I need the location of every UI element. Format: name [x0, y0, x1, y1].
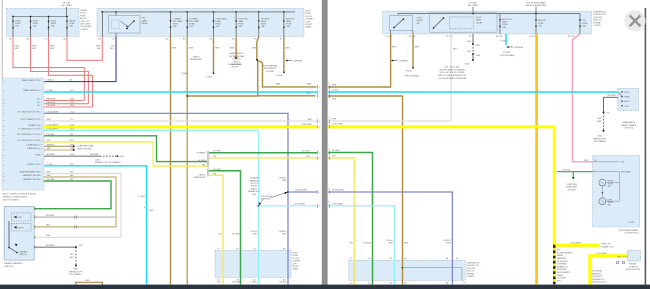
svg-text:(051): (051) — [70, 154, 75, 156]
svg-text:(UNDER: (UNDER — [293, 261, 301, 263]
row GND wire BLK/WHT with splice S203 — [44, 154, 124, 158]
svg-text:A2: A2 — [404, 257, 406, 260]
wire BRN cargo passenger 2 — [186, 37, 188, 285]
arrow to slate junction — [271, 192, 287, 198]
svg-text:KICK PANEL): KICK PANEL) — [70, 273, 82, 276]
wire BRN row2 right page to bottom box — [328, 96, 402, 285]
svg-text:LT BLU/WHT: LT BLU/WHT — [47, 129, 59, 131]
svg-text:S110: S110 — [476, 45, 480, 47]
svg-text:ENGINE: ENGINE — [593, 22, 601, 24]
IPC label — [619, 229, 639, 235]
svg-text:HARNESS: HARNESS — [592, 272, 602, 275]
labels above bottom right box — [349, 240, 451, 245]
svg-text:A1: A1 — [10, 38, 12, 41]
svg-text:(4.3L RIGHT REAR OF ENGINE): (4.3L RIGHT REAR OF ENGINE) — [438, 77, 467, 80]
svg-text:RR TURN SIG LP CTRL (: RR TURN SIG LP CTRL ( — [17, 134, 42, 136]
svg-text:BLU: BLU — [110, 48, 114, 50]
inline connector marks x206 — [207, 151, 209, 177]
svg-text:W/ INSTRUMENT: W/ INSTRUMENT — [557, 252, 573, 254]
svg-text:SIDE OF THE ENGINE BLOCK): SIDE OF THE ENGINE BLOCK) — [438, 75, 466, 77]
dashed highlighted wire down from splice — [553, 245, 556, 284]
svg-text:BREAKOUT): BREAKOUT) — [248, 190, 260, 193]
svg-text:1413: 1413 — [70, 129, 74, 131]
svg-text:BRN: BRN — [332, 85, 337, 87]
svg-text:RELAY: RELAY — [142, 22, 149, 25]
svg-text:A6: A6 — [446, 282, 448, 285]
svg-text:SWITCH: SWITCH — [20, 254, 28, 256]
svg-text:LT BLU: LT BLU — [47, 90, 54, 92]
svg-text:INSTRUMENT PANEL: INSTRUMENT PANEL — [619, 229, 639, 232]
svg-text:DATA BUS (-) (: DATA BUS (-) ( — [27, 147, 42, 150]
svg-text:(ON LEFT: (ON LEFT — [593, 17, 603, 19]
wire BRN to ground G300 — [213, 37, 215, 75]
fuse FRT PRK LAMP — [258, 12, 270, 37]
svg-text:SWITCH): SWITCH) — [625, 128, 634, 130]
svg-text:S203: S203 — [149, 210, 154, 212]
svg-text:W/ FOLDING: W/ FOLDING — [260, 196, 272, 198]
svg-text:B5: B5 — [232, 39, 234, 41]
svg-text:TURN: TURN — [608, 183, 614, 185]
svg-text:B7: B7 — [390, 283, 392, 285]
labels below bottom box — [217, 282, 287, 284]
label RED/WHT 1 — [15, 46, 20, 51]
svg-text:INSTRUMENT: INSTRUMENT — [557, 272, 571, 274]
svg-text:RIGHT: RIGHT — [18, 228, 25, 230]
svg-text:CURRENT: CURRENT — [514, 47, 524, 49]
svg-text:FRONT: FRONT — [306, 24, 313, 26]
svg-text:G302: G302 — [95, 160, 100, 162]
svg-text:41: 41 — [469, 36, 471, 38]
svg-text:PARK: PARK — [625, 96, 631, 99]
svg-text:HAZARD SW SIG (: HAZARD SW SIG ( — [23, 174, 42, 177]
svg-text:DK BLU/WHT: DK BLU/WHT — [332, 190, 345, 192]
label HOT AT ALL TIMES (box A) — [62, 1, 73, 16]
svg-text:PASSENGER: PASSENGER — [190, 58, 203, 61]
svg-text:A2: A2 — [404, 282, 406, 285]
row LR TURN wire YEL — [44, 142, 207, 166]
label DK BLU — [110, 46, 114, 51]
BCM row labels — [17, 79, 42, 181]
svg-text:10: 10 — [594, 160, 596, 162]
svg-text:CURRENT: CURRENT — [293, 61, 303, 63]
svg-text:DK BLU: DK BLU — [280, 282, 288, 284]
fuse BRK SW — [535, 14, 546, 34]
svg-text:LT BLU/WHT: LT BLU/WHT — [47, 124, 59, 126]
svg-text:LAMP: LAMP — [502, 21, 508, 24]
wire DK GRN row to bottom box — [328, 153, 372, 285]
junction dot slate row — [287, 191, 289, 193]
svg-text:2: 2 — [319, 92, 320, 94]
svg-text:LAMPS: LAMPS — [417, 19, 424, 22]
fuse RT REAR PRK LAMP — [186, 12, 200, 37]
svg-text:LT BLU/WHT: LT BLU/WHT — [596, 253, 608, 255]
BCM U1 (body control module) — [2, 78, 44, 190]
svg-text:E1 (C2): E1 (C2) — [496, 36, 503, 38]
svg-text:DK GRN: DK GRN — [232, 234, 240, 236]
box A internal bus — [13, 16, 67, 18]
svg-text:HARNESS: HARNESS — [557, 257, 567, 260]
svg-text:DK GRN: DK GRN — [47, 179, 55, 181]
svg-text:DK GRN: DK GRN — [332, 150, 340, 152]
label RED/WHT 3 — [50, 46, 55, 51]
svg-text:BRN: BRN — [172, 47, 177, 49]
fuse AUX STOP LAMP — [499, 14, 513, 34]
svg-text:CURRENT: CURRENT — [399, 61, 409, 63]
svg-text:RED/WHT: RED/WHT — [47, 105, 57, 107]
svg-text:9: 9 — [328, 202, 329, 204]
svg-text:(BEHIND LEFT KICK PANEL): (BEHIND LEFT KICK PANEL) — [95, 161, 121, 164]
svg-text:W/ DETROIT: W/ DETROIT — [592, 276, 604, 278]
bottom right box pin labels — [350, 257, 466, 284]
svg-text:FUSE BLOCK: FUSE BLOCK — [593, 14, 606, 16]
instrument panel harness note — [557, 250, 573, 283]
ECM label — [626, 264, 641, 272]
left page edge pin brackets rows — [316, 85, 319, 207]
svg-text:BRN: BRN — [307, 93, 312, 95]
svg-text:KICK PANEL): KICK PANEL) — [594, 140, 606, 143]
svg-text:TURN: TURN — [608, 202, 614, 204]
window right border — [644, 8, 646, 285]
row RT TURN wire DK BLU/WHT — [44, 113, 288, 284]
svg-text:BODY: BODY — [293, 253, 299, 255]
svg-text:(4.8L, 5.3L & 6.0L: (4.8L, 5.3L & 6.0L — [444, 66, 460, 68]
svg-text:BRN: BRN — [404, 243, 409, 245]
hazard wire BLK/WHT row1 — [34, 216, 116, 218]
svg-text:DK GRN: DK GRN — [363, 243, 371, 245]
svg-text:G302: G302 — [73, 269, 78, 271]
svg-text:FUSE: FUSE — [538, 23, 544, 25]
svg-text:B+ (: B+ ( — [38, 105, 42, 107]
label LT BLU stub aux stop — [500, 34, 524, 57]
svg-text:B/LAMP CUT): B/LAMP CUT) — [602, 245, 615, 248]
svg-text:LT BLU/WHT: LT BLU/WHT — [332, 124, 344, 126]
bottom left connector box rect — [215, 250, 291, 277]
svg-text:BREAKOUT: BREAKOUT — [557, 265, 568, 268]
row RR TURN wire DK GRN — [44, 136, 207, 162]
svg-text:LT TURN SIG LP CTRL (: LT TURN SIG LP CTRL ( — [18, 129, 42, 131]
svg-text:6: 6 — [328, 149, 329, 151]
svg-text:PANEL: PANEL — [557, 274, 564, 277]
current arrow right page — [391, 60, 409, 63]
svg-text:CUTAWAY: CUTAWAY — [196, 152, 206, 155]
svg-text:DK BLU/WHT: DK BLU/WHT — [295, 190, 308, 192]
stop lamp switch sub-box — [390, 14, 424, 34]
box B internal bus — [101, 11, 295, 13]
svg-text:BRN: BRN — [215, 47, 220, 49]
svg-text:A6: A6 — [99, 38, 101, 41]
wire BRN row2 to page edge — [186, 95, 315, 97]
long row YEL to page edge — [209, 157, 317, 159]
wire LT BLU/WHT stub to page edge — [259, 205, 318, 207]
arrow to cyan junction — [259, 200, 263, 206]
svg-text:BRN: BRN — [332, 99, 337, 101]
wire LT BLU/WHT vertical x258.5 — [258, 130, 260, 284]
svg-text:B2: B2 — [166, 39, 168, 41]
wire RED/BLK fuse MEGA to box B — [67, 37, 102, 61]
svg-text:DK BLU/: DK BLU/ — [443, 240, 451, 242]
box B side label — [306, 11, 314, 29]
wire LT BLU park lamps row across right page — [328, 91, 618, 93]
wire DK BLU/WHT row to bottom box — [328, 192, 452, 285]
svg-text:HAZARD WARNING: HAZARD WARNING — [5, 262, 23, 265]
svg-text:DATA LINES: DATA LINES — [566, 186, 578, 189]
BCM circuit numbers — [70, 80, 75, 181]
svg-text:600: 600 — [621, 162, 624, 164]
svg-text:49: 49 — [70, 80, 72, 82]
svg-text:DK GRN: DK GRN — [213, 151, 221, 153]
svg-text:(6.6L LEFT FRONT LOWER: (6.6L LEFT FRONT LOWER — [440, 72, 465, 74]
svg-text:B+ (: B+ ( — [38, 102, 42, 104]
svg-text:UNDERHOOD: UNDERHOOD — [467, 263, 480, 265]
trailer tow circuit text — [228, 63, 241, 69]
svg-text:DK GRN: DK GRN — [302, 150, 310, 152]
svg-text:B7: B7 — [280, 39, 282, 41]
svg-text:LT BLU/WHT: LT BLU/WHT — [570, 243, 582, 245]
label LT BLU near cyan vertical — [139, 196, 153, 212]
wire LT BLU/WHT row to bottom box — [328, 206, 394, 285]
svg-text:PARK LAMP CTRL (: PARK LAMP CTRL ( — [22, 79, 42, 82]
row B+ red wires — [44, 99, 84, 101]
svg-text:RED/WHT: RED/WHT — [47, 102, 57, 104]
svg-text:LT BLU/: LT BLU/ — [250, 231, 257, 233]
svg-text:C6: C6 — [368, 283, 370, 285]
wire BRN provisional stub — [405, 34, 420, 78]
hazard wire BLK/WHT row2 to splice — [34, 245, 83, 248]
svg-text:TAN: TAN — [47, 174, 51, 177]
left edge pin numbers — [319, 87, 321, 208]
fuse STD — [579, 14, 588, 34]
svg-text:LT BLU/WHT: LT BLU/WHT — [294, 203, 306, 205]
svg-text:COMPT): COMPT) — [80, 29, 88, 31]
complete data lines text — [77, 145, 94, 151]
row LT TURN wire LT BLU/WHT — [44, 129, 259, 131]
cargo passenger text 1 — [190, 56, 203, 62]
row ALARM wire WHT to hazard switch — [34, 174, 121, 238]
ground lead BLK WHT dashed — [70, 247, 77, 266]
BCM label text — [3, 194, 37, 202]
box B pin labels — [99, 38, 283, 41]
svg-text:PARK LAMPS B+ (: PARK LAMPS B+ ( — [23, 89, 41, 92]
svg-text:C7: C7 — [112, 39, 114, 41]
svg-text:AUX STOP: AUX STOP — [502, 18, 512, 21]
bottom box side label — [293, 253, 301, 271]
svg-text:UNDERHOOD: UNDERHOOD — [593, 12, 606, 14]
fuse MEGA — [66, 17, 76, 37]
svg-text:COMPUTER: COMPUTER — [566, 184, 578, 186]
junction dot lt blu/wht row — [258, 205, 260, 207]
svg-text:ALARM/ENABLE SIG (: ALARM/ENABLE SIG ( — [19, 171, 41, 174]
svg-text:8: 8 — [319, 192, 320, 194]
highlighted gold wire YEL brake feed vertical — [535, 34, 538, 285]
svg-text:SW: SW — [417, 23, 420, 25]
svg-text:BLK/WHT: BLK/WHT — [47, 154, 56, 156]
svg-text:2: 2 — [328, 88, 329, 90]
svg-text:CIRCUIT: CIRCUIT — [231, 67, 240, 69]
svg-text:(BEHIND LEFT: (BEHIND LEFT — [69, 271, 83, 273]
svg-text:HOT W/ RUN/CRANK: HOT W/ RUN/CRANK — [526, 1, 546, 4]
svg-text:C7: C7 — [217, 280, 219, 282]
svg-text:FUSE BLOCK (I): FUSE BLOCK (I) — [592, 282, 607, 284]
box A pin labels — [10, 38, 67, 41]
svg-text:LOGIC: LOGIC — [629, 222, 636, 224]
bottom box pin ticks — [217, 248, 286, 282]
box A side label — [80, 10, 91, 31]
row BRAKE SIG highlighted wire LT BLU/WHT — [44, 125, 317, 128]
wire BRN branch to page edge row1 — [259, 61, 317, 87]
svg-text:W/ DETROIT: W/ DETROIT — [557, 261, 569, 263]
svg-text:FUSE: FUSE — [502, 24, 508, 26]
bus dots box B — [102, 11, 104, 13]
svg-text:W/ ENGINE: W/ ENGINE — [592, 271, 603, 273]
headlamp switch label — [622, 121, 637, 130]
row CHMSL wire LT BLU — [44, 166, 147, 285]
svg-text:CLUSTER: CLUSTER — [557, 278, 567, 280]
engine control module ECM — [616, 250, 640, 264]
svg-text:STOP: STOP — [476, 17, 482, 19]
svg-text:BRN: BRN — [286, 47, 291, 49]
svg-text:SWITCH): SWITCH) — [5, 266, 14, 268]
ambulance package text — [229, 51, 245, 67]
window bottom bar — [0, 285, 650, 289]
svg-text:(ON LOW: (ON LOW — [80, 21, 89, 23]
svg-text:B7: B7 — [390, 258, 392, 260]
BRN loop at bottom — [76, 280, 103, 284]
svg-text:1: 1 — [328, 83, 329, 85]
svg-text:BODY CONTROL MODULE (BCM): BODY CONTROL MODULE (BCM) — [3, 194, 37, 196]
svg-text:LT BLU: LT BLU — [501, 41, 508, 43]
svg-text:ON LEFT REAR OF ENGINE): ON LEFT REAR OF ENGINE) — [439, 68, 465, 71]
svg-text:FUSE: FUSE — [306, 13, 312, 15]
svg-text:LT BLU: LT BLU — [332, 90, 339, 92]
svg-text:ENGINE: ENGINE — [467, 273, 475, 275]
label RED/WHT 2 — [32, 46, 37, 51]
svg-text:(BEHIND LOWER RIGHT: (BEHIND LOWER RIGHT — [3, 196, 28, 198]
svg-text:VEHICLE: VEHICLE — [232, 59, 241, 61]
svg-text:3: 3 — [328, 97, 329, 99]
underhood fuse block (box C) — [383, 11, 592, 34]
svg-text:DK GRN: DK GRN — [198, 160, 206, 162]
highlighted wire from engine harness to ECM — [590, 256, 628, 285]
svg-text:CHMSL CTRL (: CHMSL CTRL ( — [27, 164, 42, 166]
svg-text:1715: 1715 — [70, 112, 74, 114]
svg-text:DK BLU/: DK BLU/ — [279, 177, 287, 179]
fuse TRLR PRK LAMP — [235, 12, 248, 37]
row park lamps B+ wire LT BLU — [44, 91, 317, 93]
svg-text:ENGINE: ENGINE — [629, 264, 637, 266]
svg-text:D3: D3 — [236, 249, 238, 251]
wire BLK/WHT from dimmer switch — [603, 95, 618, 115]
svg-text:UNDER: UNDER — [80, 10, 87, 12]
svg-text:018: 018 — [70, 134, 73, 136]
svg-text:DK BLU/WHT: DK BLU/WHT — [47, 112, 60, 114]
svg-text:SYSTEM: SYSTEM — [568, 189, 576, 191]
svg-text:HOT AT: HOT AT — [63, 1, 71, 4]
wire YEL to bottom connector — [209, 175, 223, 284]
prk lamp relay K1 — [109, 16, 149, 34]
svg-text:STD: STD — [582, 20, 586, 22]
svg-text:BRN: BRN — [392, 47, 397, 49]
svg-text:CARGO: CARGO — [192, 56, 200, 59]
svg-text:139: 139 — [70, 164, 73, 166]
svg-text:G302: G302 — [598, 136, 603, 138]
svg-text:SEAT): SEAT) — [293, 268, 299, 271]
svg-text:HDLP: HDLP — [625, 92, 631, 94]
svg-text:PANEL DIMMER: PANEL DIMMER — [622, 124, 637, 127]
svg-text:9: 9 — [319, 206, 320, 208]
svg-text:LINES SYSTEM: LINES SYSTEM — [77, 149, 91, 151]
svg-text:RED/: RED/ — [15, 46, 20, 48]
svg-text:RED/: RED/ — [50, 46, 55, 48]
wire BRN cargo passenger 1 — [170, 37, 172, 285]
svg-text:ALL TIMES: ALL TIMES — [468, 4, 479, 7]
svg-text:(F): (F) — [557, 250, 560, 252]
highlighted branch to prk lps blamp cut — [554, 244, 599, 247]
svg-text:SIDE OF: SIDE OF — [467, 271, 476, 273]
ground G103 text — [438, 64, 470, 81]
svg-text:(BEHIND LEFT: (BEHIND LEFT — [593, 138, 607, 140]
svg-text:BRN: BRN — [276, 84, 281, 86]
svg-text:RELAY IS ENERGIZED: RELAY IS ENERGIZED — [526, 4, 547, 7]
svg-text:151: 151 — [70, 90, 73, 92]
svg-text:TAN/BLK: TAN/BLK — [47, 143, 56, 146]
svg-text:I6 BYPASS: I6 BYPASS — [557, 263, 567, 266]
svg-text:BLOCK: BLOCK — [293, 258, 300, 260]
svg-text:BLK/WHT: BLK/WHT — [46, 245, 55, 247]
stop lamp relay K2 — [429, 13, 497, 32]
svg-text:CLUSTER (IPC): CLUSTER (IPC) — [624, 233, 638, 235]
wire DK GRN serial data to IPC — [557, 169, 593, 179]
window left faint border — [1, 0, 3, 80]
row STOP LAMPS wire WHT — [44, 120, 317, 122]
fuse LT REAR PRK LAMP — [170, 12, 184, 37]
svg-text:COMPLETE DATA: COMPLETE DATA — [77, 145, 94, 148]
svg-text:F AGB: F AGB — [406, 70, 412, 73]
svg-text:463: 463 — [70, 175, 73, 177]
svg-text:BODY: BODY — [306, 11, 312, 13]
svg-text:DK GRN: DK GRN — [562, 169, 570, 171]
svg-text:BLK/WHT: BLK/WHT — [46, 215, 55, 217]
svg-text:8: 8 — [328, 188, 329, 190]
headlamp panel dimmer switch SW2 — [618, 88, 639, 110]
svg-text:RED/: RED/ — [96, 46, 101, 48]
internal link wire in bottom box — [402, 267, 462, 280]
fuse BCM1 10A — [12, 17, 21, 37]
svg-text:DK BLU: DK BLU — [47, 80, 55, 82]
svg-text:(ON LEFT: (ON LEFT — [467, 268, 477, 270]
wire DK BLU from relay to BCM park lamp ctrl — [44, 37, 116, 82]
svg-text:LT BLU: LT BLU — [139, 196, 146, 198]
right page edge pin brackets — [328, 85, 331, 207]
svg-text:LT BLU/WHT: LT BLU/WHT — [332, 203, 344, 205]
svg-text:HOT AT: HOT AT — [470, 1, 478, 4]
wire RED/WHT from fuse BCM1 to BCM B+ — [13, 37, 84, 101]
BCM internal pin ticks — [3, 81, 5, 181]
svg-text:LEFT: LEFT — [293, 263, 299, 265]
long row DK GRN to page edge — [209, 152, 317, 154]
wire BLK to ground G103 with splices — [467, 34, 480, 61]
wire RED/WHT from fuse BCM3 — [49, 37, 93, 108]
svg-text:LEFT SIDE: LEFT SIDE — [80, 24, 90, 26]
label WHT ecm pin — [617, 256, 629, 258]
svg-text:STOP: STOP — [417, 18, 423, 20]
svg-text:7: 7 — [328, 154, 329, 156]
svg-text:LT BLU: LT BLU — [47, 164, 54, 166]
label RED/BLK — [96, 46, 101, 51]
svg-text:3: 3 — [319, 96, 320, 98]
bottom right connector box rect — [349, 260, 466, 280]
svg-text:B6: B6 — [255, 39, 257, 41]
row HAZARD wire DK GRN to hazard switch — [34, 181, 111, 209]
